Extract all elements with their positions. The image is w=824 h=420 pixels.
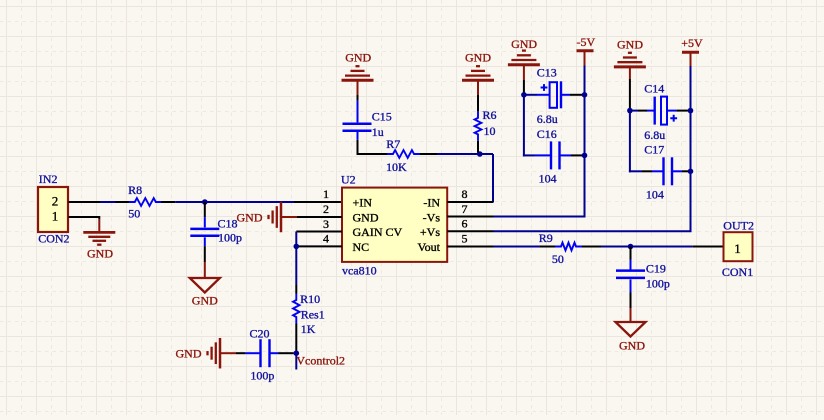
svg-text:104: 104 bbox=[539, 172, 557, 186]
svg-text:1K: 1K bbox=[301, 322, 316, 336]
node junction C16/-5V rail bbox=[582, 153, 588, 159]
node junction GND/C14 bbox=[627, 108, 633, 114]
svg-text:C15: C15 bbox=[372, 109, 392, 123]
svg-text:Res1: Res1 bbox=[301, 308, 325, 322]
wire +5V rail bbox=[690, 66, 692, 231]
wire U2 pin 4 stub bbox=[296, 245, 342, 247]
svg-text:Vcontrol2: Vcontrol2 bbox=[296, 354, 345, 368]
wire net IN segment bbox=[100, 201, 116, 203]
svg-text:8: 8 bbox=[462, 187, 468, 201]
wire R7 right black segment bbox=[420, 153, 437, 155]
wire R10 bottom to Vcontrol2 node bbox=[295, 324, 297, 354]
svg-text:CON2: CON2 bbox=[38, 232, 69, 246]
resistor R6 bbox=[475, 111, 482, 140]
power port +5V bbox=[682, 51, 699, 54]
capacitor C13 left lead bbox=[524, 94, 537, 96]
wire U2 pin 2 stub bbox=[297, 216, 342, 218]
wire R6 to junction bbox=[477, 141, 479, 153]
power port GND above C15 bbox=[342, 79, 374, 82]
capacitor C17 right lead bbox=[682, 170, 691, 172]
node junction C13/-5V rail bbox=[582, 92, 588, 98]
capacitor C14 polarized plate bbox=[661, 97, 667, 125]
wire GND rail down to C17 bbox=[629, 111, 631, 173]
wire pin7 to -5V rail bbox=[494, 216, 586, 218]
svg-text:100p: 100p bbox=[218, 231, 242, 245]
power port GND above C13 bbox=[508, 63, 540, 66]
capacitor C20 bbox=[245, 352, 261, 354]
resistor R8 bbox=[129, 198, 162, 206]
svg-text:-IN: -IN bbox=[423, 195, 440, 209]
ground GND below C19 bbox=[630, 308, 632, 322]
ground GND bar symbol left of C20 bbox=[219, 338, 222, 369]
node junction R8/C18 bbox=[202, 199, 208, 205]
svg-text:2: 2 bbox=[323, 202, 329, 216]
wire R8 to U2 pin1 bbox=[175, 201, 294, 203]
power port GND above R6 bbox=[462, 79, 494, 82]
svg-text:NC: NC bbox=[353, 240, 370, 254]
svg-text:2: 2 bbox=[52, 194, 59, 209]
capacitor C14 right lead bbox=[667, 110, 677, 112]
connector J-OUT2 CON1 box bbox=[724, 232, 753, 261]
capacitor C14 plate bbox=[654, 97, 656, 125]
wire U2 pin 1 stub bbox=[294, 201, 342, 203]
wire GND to C13 junction bbox=[523, 80, 525, 95]
wire GND to C14 junction bbox=[629, 79, 631, 111]
node junction C17/+5V rail bbox=[688, 169, 694, 175]
node junction GND/C13 bbox=[521, 92, 527, 98]
svg-text:104: 104 bbox=[646, 188, 664, 202]
resistor R9 bbox=[555, 243, 582, 251]
svg-text:C18: C18 bbox=[218, 217, 238, 231]
wire segment to R9 left bbox=[540, 246, 555, 248]
wire U2 pin 8 stub bbox=[447, 201, 493, 203]
capacitor C17 bbox=[662, 157, 664, 185]
wire IN2 pin2 stub bbox=[69, 201, 101, 203]
capacitor C13 polarized plate bbox=[550, 82, 557, 108]
capacitor C19 bbox=[630, 260, 632, 270]
wire OUT2 pin stub bbox=[692, 246, 722, 248]
wire C19 bottom stem bbox=[630, 293, 632, 309]
resistor R7 bbox=[387, 150, 420, 158]
svg-text:GAIN CV: GAIN CV bbox=[353, 225, 403, 239]
wire gain control vertical bbox=[295, 232, 297, 286]
power port GND above C14 bbox=[614, 65, 646, 68]
op-amp U2 vca810 body bbox=[342, 188, 447, 262]
svg-text:U2: U2 bbox=[341, 173, 356, 187]
svg-text:C13: C13 bbox=[537, 66, 557, 80]
capacitor C15 bbox=[357, 101, 359, 123]
svg-text:1: 1 bbox=[52, 209, 59, 224]
node junction C20/Vcontrol2 bbox=[294, 350, 300, 356]
svg-text:4: 4 bbox=[323, 232, 329, 246]
node junction R9/C19 bbox=[628, 244, 634, 250]
svg-text:GND: GND bbox=[237, 210, 263, 224]
svg-text:C14: C14 bbox=[644, 82, 664, 96]
connector J-IN2 CON2 box bbox=[38, 187, 68, 232]
svg-text:6.8u: 6.8u bbox=[644, 128, 665, 142]
capacitor C18 bbox=[204, 217, 206, 227]
svg-text:R6: R6 bbox=[483, 108, 497, 122]
power port -5V bbox=[577, 49, 594, 52]
svg-text:50: 50 bbox=[128, 207, 140, 221]
wire U2 pin 7 stub bbox=[447, 216, 493, 218]
svg-text:GND: GND bbox=[353, 210, 379, 224]
svg-text:GND: GND bbox=[617, 38, 643, 52]
svg-text:+Vs: +Vs bbox=[420, 225, 440, 239]
wire GND to C15 bbox=[357, 95, 359, 101]
capacitor C13 plus sign bbox=[541, 84, 548, 91]
svg-text:GND: GND bbox=[511, 37, 537, 51]
wire U2 pin 3 stub bbox=[296, 231, 342, 233]
svg-text:10K: 10K bbox=[386, 160, 407, 174]
node junction pin4/gain net bbox=[294, 244, 300, 250]
svg-text:OUT2: OUT2 bbox=[723, 219, 754, 233]
wire segment to R10 bbox=[295, 285, 297, 294]
node junction C14/+5V rail bbox=[688, 108, 694, 114]
wire C19 top stem bbox=[630, 247, 632, 260]
svg-text:10: 10 bbox=[484, 124, 496, 138]
node junction R7/R6 bbox=[477, 151, 483, 157]
wire R9 to OUT2 bbox=[601, 246, 692, 248]
ground GND below C18 bbox=[204, 262, 206, 278]
svg-text:C19: C19 bbox=[646, 261, 666, 275]
svg-text:GND: GND bbox=[465, 50, 491, 64]
wire down to ground bbox=[98, 216, 100, 219]
svg-text:GND: GND bbox=[176, 346, 202, 360]
wire GND to R6 bbox=[477, 95, 479, 111]
wire pin5 to R9 bbox=[494, 246, 541, 248]
capacitor C13 right lead bbox=[561, 94, 570, 96]
svg-text:7: 7 bbox=[462, 202, 468, 216]
capacitor C13 plate bbox=[560, 81, 562, 108]
capacitor C16 bbox=[550, 141, 552, 169]
svg-text:vca810: vca810 bbox=[342, 264, 377, 278]
wire -5V rail bbox=[584, 66, 586, 217]
svg-text:50: 50 bbox=[552, 252, 564, 266]
svg-text:1: 1 bbox=[734, 241, 741, 256]
svg-text:C17: C17 bbox=[644, 143, 664, 157]
wire R8 right black segment bbox=[161, 201, 175, 203]
wire C15 to R7 corner bbox=[357, 140, 359, 155]
svg-text:3: 3 bbox=[323, 217, 329, 231]
svg-text:GND: GND bbox=[345, 50, 371, 64]
ground GND at IN2 pin1 bbox=[98, 219, 100, 232]
wire C18 top stem bbox=[204, 202, 206, 217]
svg-text:-5V: -5V bbox=[576, 35, 595, 49]
svg-text:Vout: Vout bbox=[418, 240, 441, 254]
svg-text:C16: C16 bbox=[537, 127, 557, 141]
svg-text:100p: 100p bbox=[250, 369, 274, 383]
svg-text:6.8u: 6.8u bbox=[537, 112, 558, 126]
capacitor C16 right lead bbox=[571, 154, 585, 156]
svg-text:100p: 100p bbox=[646, 276, 670, 290]
svg-text:CON1: CON1 bbox=[722, 265, 753, 279]
svg-text:GND: GND bbox=[192, 294, 218, 308]
wire IN2 pin1 stub bbox=[69, 216, 100, 218]
svg-text:-Vs: -Vs bbox=[423, 210, 441, 224]
svg-text:+5V: +5V bbox=[681, 36, 703, 50]
ground GND bar symbol at U2 pin2 bbox=[280, 202, 283, 233]
svg-text:R7: R7 bbox=[386, 137, 400, 151]
capacitor C14 left lead bbox=[630, 110, 638, 112]
svg-text:C20: C20 bbox=[250, 327, 270, 341]
wire U2 pin 6 stub bbox=[447, 230, 493, 232]
wire C20 to junction bbox=[279, 352, 294, 354]
svg-text:GND: GND bbox=[87, 247, 113, 261]
wire pin6 to +5V rail bbox=[494, 230, 692, 232]
wire Vcontrol2 stub bbox=[295, 353, 297, 369]
svg-text:R8: R8 bbox=[128, 183, 142, 197]
svg-text:+IN: +IN bbox=[353, 195, 373, 209]
capacitor C14 plus sign bbox=[670, 115, 677, 122]
svg-text:6: 6 bbox=[462, 217, 468, 231]
wire segment to R8 bbox=[116, 201, 130, 203]
svg-text:1: 1 bbox=[323, 187, 329, 201]
wire GND to C20 bbox=[236, 352, 245, 354]
wire R7 to pin8 riser bbox=[437, 153, 493, 155]
wire R9 right black segment bbox=[582, 246, 601, 248]
svg-text:IN2: IN2 bbox=[39, 172, 58, 186]
wire GND rail down to C16 bbox=[523, 95, 525, 157]
svg-text:1u: 1u bbox=[372, 125, 384, 139]
capacitor C16 left lead bbox=[523, 154, 535, 156]
svg-text:GND: GND bbox=[619, 339, 645, 353]
wire C18 bottom stem bbox=[204, 246, 206, 262]
svg-text:R10: R10 bbox=[300, 292, 320, 306]
svg-text:R9: R9 bbox=[539, 231, 553, 245]
capacitor C17 left lead bbox=[629, 170, 642, 172]
svg-text:5: 5 bbox=[462, 232, 468, 246]
wire riser to U2 pin8 bbox=[492, 154, 494, 202]
resistor R10 bbox=[293, 294, 299, 324]
wire U2 pin 5 stub bbox=[447, 246, 493, 248]
